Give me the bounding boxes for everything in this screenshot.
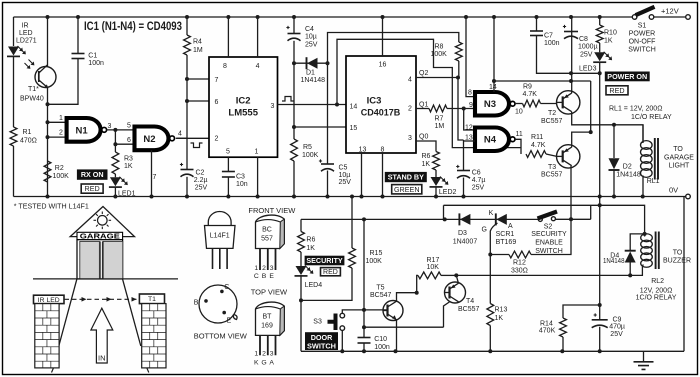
label RX ON [77, 169, 108, 179]
capacitor C5 [321, 163, 334, 165]
svg-text:4.7K: 4.7K [531, 142, 546, 149]
wire T4 collector [444, 302, 450, 327]
svg-text:470K: 470K [539, 328, 556, 335]
svg-text:15: 15 [350, 125, 358, 132]
svg-text:100n: 100n [374, 344, 390, 351]
svg-text:R9: R9 [523, 83, 532, 90]
svg-text:1C/O RELAY: 1C/O RELAY [636, 295, 677, 302]
wire IC2 pin4 [257, 17, 259, 57]
wire IC2 pin8 [227, 17, 229, 57]
svg-text:LED3: LED3 [579, 66, 597, 73]
wire S3 top to T5 base [342, 310, 388, 313]
svg-text:K: K [254, 359, 259, 366]
svg-text:10: 10 [515, 109, 523, 116]
svg-text:C1: C1 [88, 52, 97, 59]
svg-text:C10: C10 [374, 336, 387, 343]
wire T5 collector [397, 293, 417, 302]
package BT169 [256, 302, 285, 335]
svg-text:C: C [254, 273, 259, 280]
svg-text:7: 7 [215, 77, 219, 84]
resistor R8 [455, 42, 462, 61]
wire N3 output [515, 103, 523, 105]
svg-text:1: 1 [254, 265, 258, 272]
svg-text:12V, 200Ω: 12V, 200Ω [640, 288, 673, 295]
wire R14 C9 feed [563, 305, 600, 318]
package L14F1 [208, 212, 231, 226]
svg-text:TO: TO [673, 249, 683, 256]
op-amp N3 NAND gate [475, 92, 509, 116]
wire C5 column [327, 63, 329, 196]
transistor T2 BC557 [557, 91, 580, 114]
svg-text:N3: N3 [484, 99, 496, 110]
LED LED2 [431, 177, 442, 186]
svg-text:RL1 = 12V, 200Ω: RL1 = 12V, 200Ω [609, 106, 662, 113]
svg-text:BC: BC [262, 227, 272, 234]
svg-text:N2: N2 [143, 134, 155, 145]
svg-text:1N4148: 1N4148 [301, 77, 326, 84]
svg-text:557: 557 [261, 236, 273, 243]
capacitor C4 [293, 17, 295, 33]
wire IC2 left column [186, 55, 188, 169]
resistor R1 [10, 127, 17, 146]
svg-text:C9: C9 [613, 316, 622, 323]
svg-text:IC1 (N1-N4) = CD4093: IC1 (N1-N4) = CD4093 [84, 21, 182, 33]
svg-text:3: 3 [271, 103, 275, 110]
svg-text:330Ω: 330Ω [511, 268, 528, 275]
wire D3-SCR line [301, 218, 540, 220]
garage pillar left (IR LED) [35, 304, 59, 368]
svg-text:T5: T5 [376, 284, 384, 291]
wire Q0 output [416, 141, 436, 152]
svg-text:TOP VIEW: TOP VIEW [251, 288, 288, 297]
node 0V terminal [686, 194, 691, 199]
resistor R6 [433, 152, 440, 171]
wire T2 emitter [571, 17, 573, 93]
svg-text:IC2: IC2 [236, 96, 251, 107]
switch S1 [632, 15, 637, 20]
transistor T3 BC557 [557, 145, 580, 168]
svg-text:R2: R2 [55, 165, 64, 172]
svg-text:A: A [508, 223, 513, 230]
wire N1 inputs [48, 122, 67, 137]
svg-text:1M: 1M [435, 123, 445, 130]
svg-text:14: 14 [350, 104, 358, 111]
wire LED3 cathode column [599, 62, 601, 305]
svg-text:3: 3 [270, 265, 274, 272]
svg-text:0V: 0V [669, 186, 678, 195]
svg-text:POWER ON: POWER ON [607, 72, 647, 81]
svg-text:BPW40: BPW40 [20, 96, 44, 103]
svg-text:B: B [194, 300, 199, 307]
svg-text:25V: 25V [339, 179, 352, 186]
wire IC3 pin16 [382, 17, 384, 56]
svg-text:T4: T4 [466, 298, 474, 305]
svg-text:R7: R7 [435, 116, 444, 123]
diode D1 1N4148 [294, 62, 328, 64]
svg-text:S3: S3 [313, 319, 322, 326]
wire Q2 output [416, 77, 458, 79]
svg-text:C: C [224, 284, 229, 291]
svg-text:R4: R4 [193, 39, 202, 46]
svg-text:C3: C3 [236, 173, 245, 180]
ground symbol [643, 351, 645, 361]
wire IC3 pin13 ground [361, 153, 363, 197]
svg-text:4.7µ: 4.7µ [472, 177, 486, 184]
wire T3 collector [570, 166, 572, 255]
label RED (RX) [81, 184, 103, 193]
wire Q2 to N4 pin13 [458, 78, 464, 141]
relay RL2 coil [641, 234, 653, 242]
svg-text:R17: R17 [427, 257, 440, 264]
svg-text:IN: IN [98, 353, 106, 362]
svg-text:S2: S2 [544, 224, 553, 231]
svg-text:2: 2 [408, 106, 412, 113]
transistor T4 BC557 [445, 282, 466, 303]
svg-text:1: 1 [254, 350, 258, 357]
svg-text:LIGHT: LIGHT [669, 163, 690, 170]
svg-text:1N4148: 1N4148 [603, 258, 625, 265]
wire T1 collector [47, 17, 49, 67]
op-amp N2 NAND gate [135, 127, 169, 151]
IR beam dashed line [65, 298, 140, 300]
label IR LED box [34, 295, 65, 303]
svg-text:R12: R12 [513, 260, 526, 267]
label RED (power) [606, 86, 628, 95]
wire IC2 pin2 [176, 137, 187, 139]
capacitor C2 [181, 169, 194, 171]
wire N3 pin8 tie-high [466, 17, 475, 97]
switch S2 [538, 217, 542, 221]
LED LED3 [599, 43, 601, 52]
svg-text:* TESTED WITH L14F1: * TESTED WITH L14F1 [14, 202, 89, 211]
capacitor C6 [463, 140, 465, 197]
svg-text:BT169: BT169 [496, 239, 517, 246]
svg-text:8: 8 [468, 90, 472, 97]
wire lower ground rail [301, 197, 684, 352]
package BC557 [256, 215, 285, 248]
LED LED4 [296, 266, 307, 275]
svg-text:SCR1: SCR1 [496, 231, 515, 238]
resistor R11 [526, 151, 546, 158]
garage ground line [33, 278, 178, 280]
wire S2 to switched line [555, 205, 591, 219]
LED LED1 [110, 177, 121, 186]
wire VDD distribution [494, 80, 591, 82]
wire Q1 output [416, 108, 429, 110]
capacitor C3 [227, 157, 229, 196]
svg-text:R5: R5 [303, 144, 312, 151]
svg-text:BC557: BC557 [541, 172, 563, 179]
capacitor C7 [537, 17, 600, 73]
svg-text:100K: 100K [366, 258, 383, 265]
svg-text:LD271: LD271 [16, 38, 37, 45]
wire S3-C10-T4 line [364, 326, 444, 328]
svg-text:BC547: BC547 [370, 292, 392, 299]
svg-text:E: E [269, 273, 274, 280]
svg-text:12: 12 [465, 125, 473, 132]
svg-text:1: 1 [255, 149, 259, 156]
svg-text:C4: C4 [305, 26, 314, 33]
svg-text:E: E [227, 318, 232, 325]
svg-text:25V: 25V [610, 331, 623, 338]
svg-text:R11: R11 [531, 134, 543, 141]
svg-text:10µ: 10µ [305, 34, 317, 41]
svg-text:IR: IR [22, 23, 29, 30]
svg-text:S1: S1 [638, 23, 647, 30]
garage pillar right (T1) [142, 304, 166, 368]
wire N2 pin7 ground [151, 150, 153, 196]
wire VDD pin14 line [493, 17, 495, 92]
svg-text:G: G [482, 227, 487, 234]
svg-text:1000µ: 1000µ [578, 44, 598, 51]
diode D3 1N4007 [458, 213, 460, 225]
resistor R4 [186, 17, 188, 35]
resistor R14 [560, 318, 567, 337]
resistor R10 [599, 17, 601, 25]
svg-text:4: 4 [408, 77, 412, 84]
svg-text:2: 2 [215, 136, 219, 143]
wire IR LED column [13, 17, 15, 197]
relay RL1 coil [641, 141, 653, 150]
svg-text:11: 11 [516, 131, 523, 138]
wire N1 output [107, 129, 135, 131]
garage wall tick right [147, 368, 149, 373]
svg-text:R13: R13 [495, 307, 508, 314]
svg-text:10µ: 10µ [339, 172, 351, 179]
label STAND BY [385, 172, 427, 182]
svg-text:3: 3 [108, 123, 112, 130]
svg-text:RL2: RL2 [651, 278, 664, 285]
wire R11 to T3 base [546, 154, 557, 156]
svg-text:TO: TO [673, 146, 683, 153]
svg-text:2: 2 [262, 350, 266, 357]
wire R9 to T2 base [541, 103, 557, 105]
svg-text:3: 3 [270, 350, 274, 357]
svg-text:T1*: T1* [28, 86, 39, 93]
svg-text:T1: T1 [148, 296, 156, 303]
resistor R9 [523, 100, 541, 107]
svg-text:GREEN: GREEN [394, 185, 420, 194]
svg-text:BUZZER: BUZZER [663, 258, 691, 265]
svg-text:IC3: IC3 [367, 96, 382, 107]
svg-text:10K: 10K [427, 264, 440, 271]
svg-text:1K: 1K [124, 163, 133, 170]
svg-text:R14: R14 [540, 320, 553, 327]
garage roof [70, 207, 134, 237]
wire T4 emitter line [456, 267, 642, 276]
svg-text:D1: D1 [306, 70, 315, 77]
resistor R6 (security) [298, 232, 305, 253]
wire R7 to N3 pin9 [447, 108, 475, 110]
svg-text:N1: N1 [76, 125, 89, 136]
svg-text:BT: BT [263, 314, 273, 321]
wire N4 output [515, 139, 521, 154]
IR LED LD271 [8, 47, 19, 56]
svg-text:SECURITY: SECURITY [531, 231, 567, 238]
svg-text:SECURITY: SECURITY [306, 256, 343, 265]
svg-text:16: 16 [379, 62, 387, 69]
op-amp U-IC3 CD4017B box [346, 56, 416, 153]
wire VDD corner [590, 81, 592, 132]
svg-text:SWITCH: SWITCH [628, 47, 656, 54]
wire +12V feed [654, 16, 686, 18]
wire T3 emitter [572, 132, 591, 147]
wire N4 pin13 input [464, 140, 476, 142]
transistor T5 BC547 [383, 301, 403, 321]
svg-text:D2: D2 [623, 164, 632, 171]
svg-text:RL1: RL1 [647, 178, 660, 185]
svg-text:BC557: BC557 [541, 118, 563, 125]
wire security column [300, 219, 302, 351]
garage wall right [123, 279, 141, 346]
svg-text:169: 169 [261, 323, 273, 330]
svg-text:C2: C2 [196, 170, 205, 177]
svg-text:470µ: 470µ [609, 324, 625, 331]
svg-text:25V: 25V [195, 184, 208, 191]
svg-text:8: 8 [381, 147, 385, 154]
svg-text:GARAGE: GARAGE [664, 154, 694, 161]
svg-text:RED: RED [85, 184, 100, 193]
resistor R13 [489, 255, 491, 352]
svg-text:ON-OFF: ON-OFF [629, 39, 656, 46]
svg-text:B: B [262, 273, 267, 280]
svg-text:8: 8 [223, 63, 227, 70]
svg-text:1K: 1K [422, 161, 431, 168]
garage wall tick left [52, 368, 54, 373]
wire clock feed line [337, 39, 521, 147]
svg-text:1K: 1K [306, 245, 315, 252]
svg-text:LM555: LM555 [228, 108, 258, 119]
svg-text:13: 13 [359, 147, 367, 154]
resistor R12 [490, 254, 509, 256]
package bottom view [199, 285, 237, 323]
svg-text:C8: C8 [579, 36, 588, 43]
wire IC2 pin7 pin6 links [187, 79, 209, 101]
svg-text:1K: 1K [495, 315, 504, 322]
wire R5 column [293, 63, 295, 196]
svg-text:LED1: LED1 [118, 191, 136, 198]
svg-text:K: K [489, 210, 494, 217]
svg-text:10n: 10n [236, 181, 248, 188]
garage name banner [77, 232, 123, 239]
svg-text:100n: 100n [544, 40, 560, 47]
resistor R2 [44, 161, 51, 182]
resistor R17 [417, 275, 418, 292]
svg-text:R10: R10 [604, 30, 617, 37]
svg-text:FRONT VIEW: FRONT VIEW [248, 206, 296, 215]
svg-text:R1: R1 [23, 129, 32, 136]
resistor R15 [301, 197, 352, 301]
svg-text:A: A [269, 359, 274, 366]
wire to N4 pin12 [464, 109, 475, 131]
svg-text:100K: 100K [53, 173, 70, 180]
svg-text:LED4: LED4 [305, 282, 323, 289]
op-amp N1 NAND gate [67, 118, 101, 142]
svg-text:4: 4 [256, 63, 260, 70]
svg-text:1N4007: 1N4007 [453, 239, 478, 246]
garage wall left [59, 279, 77, 346]
svg-text:Q0: Q0 [419, 134, 428, 141]
svg-text:G: G [261, 359, 266, 366]
wire switched line left drop [443, 205, 445, 219]
svg-text:6: 6 [127, 137, 131, 144]
transistor T1 BPW40 [35, 67, 56, 88]
wire R8 feed line [328, 33, 459, 64]
wire T1 emitter column [47, 88, 49, 197]
svg-text:25V: 25V [580, 51, 593, 58]
svg-text:C6: C6 [472, 170, 481, 177]
wire T2 collector to RL1 [572, 112, 643, 142]
wire IC3 pin8 ground [382, 153, 384, 197]
svg-text:STAND BY: STAND BY [388, 173, 424, 182]
wire IC3 pin15 link [294, 126, 346, 128]
label GREEN [392, 185, 422, 194]
wire 0V rail [14, 196, 686, 198]
svg-text:2: 2 [262, 265, 266, 272]
svg-text:BOTTOM VIEW: BOTTOM VIEW [194, 331, 248, 340]
svg-text:IR LED: IR LED [38, 297, 60, 304]
svg-text:4: 4 [178, 131, 182, 138]
node +12V terminal [686, 15, 691, 20]
svg-text:LED2: LED2 [439, 189, 457, 196]
diode D4 1N4148 [630, 234, 644, 276]
svg-text:RED: RED [609, 86, 624, 95]
svg-text:R3: R3 [124, 156, 133, 163]
capacitor C9 [599, 305, 601, 351]
svg-text:BC557: BC557 [458, 306, 480, 313]
svg-text:N4: N4 [484, 135, 497, 146]
svg-text:5: 5 [127, 123, 131, 130]
svg-text:3: 3 [408, 135, 412, 142]
svg-text:R6: R6 [422, 153, 431, 160]
resistor R3 [112, 152, 119, 174]
svg-text:SWITCH: SWITCH [307, 341, 336, 350]
svg-text:ENABLE: ENABLE [535, 240, 563, 247]
svg-text:RX ON: RX ON [81, 170, 104, 179]
IN arrow [91, 308, 113, 363]
garage sun [98, 216, 108, 226]
svg-text:T3: T3 [548, 164, 556, 171]
diode D2 1N4148 [613, 125, 615, 197]
capacitor C8 [564, 31, 578, 33]
svg-text:100n: 100n [88, 60, 104, 67]
svg-text:Q1: Q1 [419, 102, 428, 109]
svg-text:RED: RED [323, 269, 338, 276]
svg-text:470Ω: 470Ω [20, 138, 37, 145]
svg-text:C7: C7 [544, 32, 553, 39]
svg-text:25V: 25V [472, 185, 485, 192]
svg-text:R6: R6 [306, 237, 315, 244]
svg-text:100K: 100K [431, 51, 448, 58]
svg-text:1N4148: 1N4148 [616, 171, 641, 178]
svg-text:1K: 1K [604, 38, 613, 45]
wire N2 output [177, 137, 209, 139]
wire R6 to LED2 [435, 170, 437, 197]
svg-text:R8: R8 [435, 44, 444, 51]
wire IC2 pin1 ground [257, 157, 259, 196]
svg-text:LED: LED [19, 30, 33, 37]
resistor R5 [291, 139, 298, 161]
label T1 box [139, 294, 164, 304]
waveform negative pulse [191, 143, 203, 148]
label SECURITY [305, 256, 345, 266]
label POWER ON [605, 72, 650, 82]
svg-text:100K: 100K [302, 152, 319, 159]
wire +12V top rail [14, 16, 635, 18]
svg-text:9: 9 [469, 102, 473, 109]
svg-text:T2: T2 [548, 110, 556, 117]
op-amp U-IC2 LM555 box [209, 57, 278, 157]
